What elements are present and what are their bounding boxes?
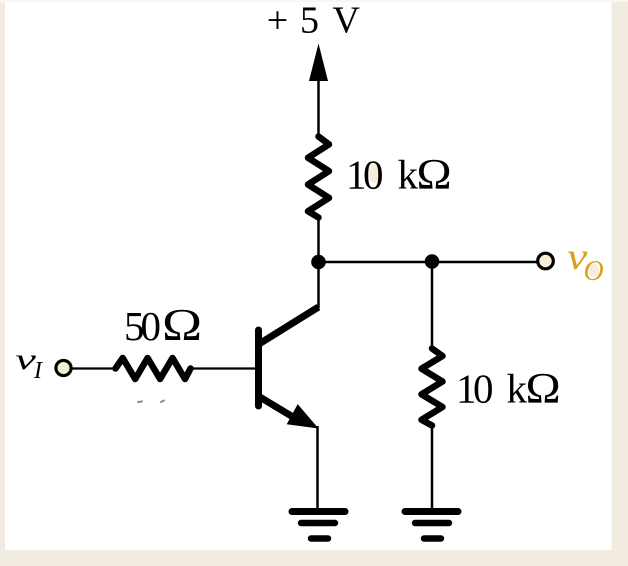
svg-text:Ω: Ω xyxy=(526,364,561,412)
VCC arrow xyxy=(309,44,328,82)
transistor Q1 base bar xyxy=(255,330,262,406)
ground load xyxy=(405,512,458,539)
resistor RC 10k zigzag xyxy=(308,137,329,218)
wire input to RB xyxy=(72,367,116,369)
wire emitter down to ground xyxy=(316,426,319,511)
svg-text:Ω: Ω xyxy=(417,150,452,198)
svg-text:O: O xyxy=(584,256,604,287)
svg-text:+5V: +5V xyxy=(267,0,361,42)
node output junction xyxy=(425,254,440,269)
output terminal circle xyxy=(538,253,554,269)
wire RC bottom to collector node xyxy=(317,216,320,264)
wire collector node down to transistor xyxy=(317,262,320,308)
resistor RB 50 ohm zigzag xyxy=(116,358,191,379)
svg-text:10k: 10k xyxy=(346,152,419,198)
transistor Q1 collector stroke xyxy=(259,307,319,344)
ground emitter xyxy=(292,512,345,539)
svg-text:10k: 10k xyxy=(456,366,528,412)
resistor RL 10k zigzag xyxy=(422,349,443,426)
svg-text:Ω: Ω xyxy=(162,300,202,350)
transistor Q1 emitter arrow xyxy=(287,404,319,428)
svg-text:I: I xyxy=(33,358,43,384)
wire RB to base xyxy=(192,367,256,369)
label RC value 10 kOhm (cream counter in 0) xyxy=(369,164,379,183)
transistor Q1 emitter stroke xyxy=(259,397,298,421)
stray mark b xyxy=(161,401,164,403)
wire output node down to RL xyxy=(431,261,434,350)
node collector junction xyxy=(311,255,326,270)
wire RL down to ground xyxy=(431,424,434,511)
wire output row xyxy=(319,261,537,264)
svg-text:50: 50 xyxy=(124,303,161,349)
input terminal circle xyxy=(56,360,71,375)
stray mark a xyxy=(138,401,142,404)
